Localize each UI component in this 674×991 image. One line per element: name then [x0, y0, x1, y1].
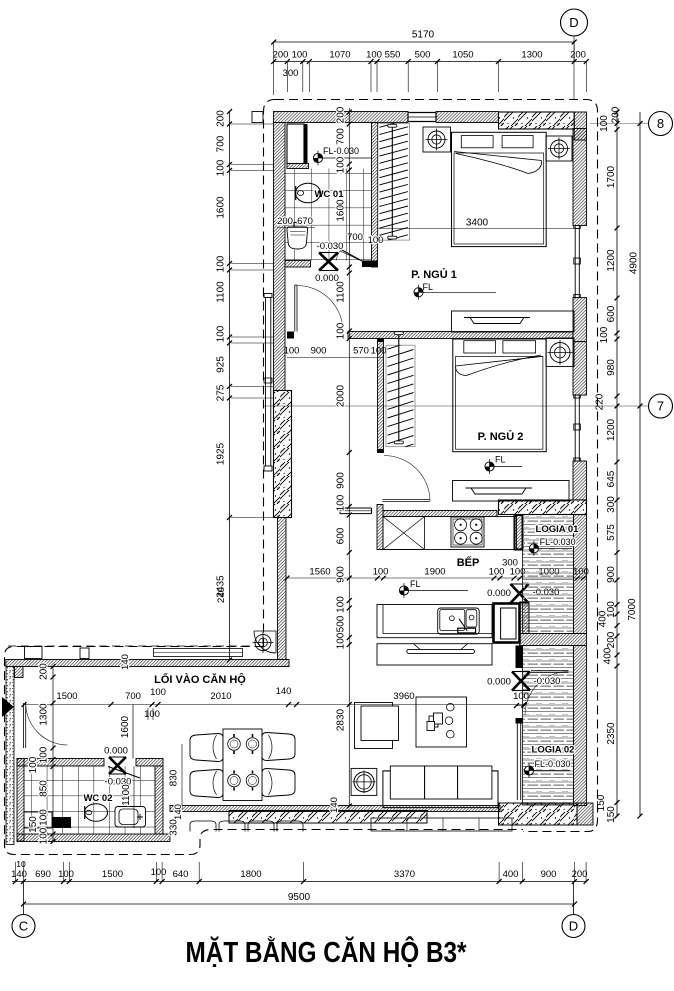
- side table with fan: [351, 768, 377, 795]
- logia01 pier: [515, 515, 523, 550]
- svg-text:1100: 1100: [336, 281, 347, 303]
- svg-text:100: 100: [216, 255, 227, 272]
- svg-text:220: 220: [595, 393, 606, 410]
- svg-text:0.000: 0.000: [487, 677, 511, 688]
- property boundary dashed (upper wing): [275, 100, 598, 832]
- dining chair 4: [262, 769, 295, 797]
- svg-text:LOGIA 02: LOGIA 02: [532, 745, 575, 756]
- grid bubble 7: [649, 394, 673, 418]
- door bedroom2 arc: [384, 456, 430, 502]
- bedroom2 left wall caps: [378, 339, 384, 453]
- svg-text:200: 200: [39, 663, 50, 680]
- svg-text:900: 900: [336, 472, 347, 489]
- threshold X vestibule: [319, 253, 338, 271]
- dining chair 1: [190, 734, 223, 762]
- svg-text:1700: 1700: [606, 165, 617, 188]
- threshold X logia02: [512, 672, 530, 691]
- svg-text:330: 330: [169, 819, 180, 836]
- svg-text:700: 700: [336, 128, 347, 145]
- svg-text:140: 140: [120, 654, 131, 670]
- svg-text:900: 900: [606, 566, 617, 583]
- svg-text:100: 100: [39, 809, 50, 826]
- svg-text:400: 400: [598, 610, 609, 627]
- window in top wall: [408, 113, 436, 122]
- dim top segments line: [271, 59, 589, 92]
- svg-text:-0.030: -0.030: [317, 241, 344, 252]
- WC02 top wall right: [136, 759, 163, 767]
- bed 2: [453, 339, 546, 452]
- lower left vdim: [51, 664, 56, 844]
- WC01 bottom wall right stub: [362, 261, 378, 268]
- left dim line: [227, 109, 232, 662]
- wardrobe 1 rod: [388, 124, 397, 239]
- wall right below window2: [573, 461, 587, 500]
- svg-text:140: 140: [11, 869, 27, 880]
- svg-text:1900: 1900: [424, 567, 445, 578]
- svg-text:100: 100: [292, 50, 308, 61]
- svg-text:1800: 1800: [240, 869, 261, 880]
- svg-text:MẶT BẰNG CĂN HỘ B3*: MẶT BẰNG CĂN HỘ B3*: [186, 935, 468, 969]
- grid bubble D top: [561, 9, 588, 36]
- entry top wall: [6, 660, 289, 667]
- corridor dashed line: [8, 645, 251, 647]
- svg-text:FL-0.030: FL-0.030: [535, 759, 571, 769]
- svg-text:670: 670: [297, 216, 313, 227]
- svg-text:D: D: [569, 919, 578, 934]
- svg-text:100: 100: [336, 596, 347, 613]
- svg-text:690: 690: [35, 869, 51, 880]
- dining chair 3: [262, 733, 295, 761]
- kitchen wall left stub: [377, 505, 383, 550]
- corridor object b: [80, 648, 89, 659]
- svg-text:100: 100: [513, 691, 529, 702]
- grid bubble D bottom: [562, 915, 585, 938]
- sink WC01: [287, 221, 308, 249]
- window right wall bedroom2: [574, 395, 581, 461]
- FL marker logia02: [524, 759, 570, 778]
- FL marker bedroom1: [414, 282, 496, 300]
- svg-text:900: 900: [541, 869, 557, 880]
- WC02 black stub: [52, 817, 71, 828]
- grid line C bottom: [23, 882, 25, 915]
- svg-text:550: 550: [385, 50, 401, 61]
- wardrobe 2 rod: [394, 332, 403, 444]
- svg-text:100: 100: [144, 709, 160, 720]
- svg-text:100: 100: [150, 687, 166, 698]
- logia01 floor hatch: [523, 515, 574, 634]
- svg-text:100: 100: [371, 346, 387, 357]
- svg-text:100: 100: [151, 867, 167, 878]
- logia02 bottom concrete band: [499, 803, 578, 825]
- window right wall bedroom1: [574, 226, 581, 298]
- divider wall logia01/02: [520, 634, 587, 646]
- dim 1600 entry: [120, 705, 133, 759]
- wall top-right corner pier: [574, 112, 586, 140]
- dim line living 3960 row: [22, 702, 527, 707]
- svg-text:100: 100: [599, 326, 610, 343]
- dining chair 2: [190, 770, 223, 798]
- left dim extension lines: [231, 124, 273, 518]
- dim line kitchen 1560 row: [285, 576, 587, 581]
- svg-text:300: 300: [283, 68, 299, 79]
- dim 3400 bedroom1: [378, 218, 574, 229]
- svg-text:1300: 1300: [39, 703, 50, 726]
- svg-text:570: 570: [353, 346, 369, 357]
- svg-text:-0.030: -0.030: [534, 676, 561, 687]
- svg-text:100: 100: [599, 115, 610, 132]
- wall top (brick, right of window): [436, 112, 499, 123]
- corner floor drain: [253, 631, 277, 653]
- wardrobe 2 hatch: [386, 341, 415, 453]
- nightstand bed2: [546, 338, 574, 367]
- svg-text:1925: 1925: [216, 442, 227, 465]
- threshold X WC02: [109, 757, 126, 774]
- svg-text:200: 200: [606, 631, 617, 648]
- svg-text:600: 600: [606, 305, 617, 322]
- svg-text:200: 200: [336, 106, 347, 123]
- place setting 4: [246, 774, 259, 787]
- svg-text:1070: 1070: [329, 50, 350, 61]
- planter right below wall: [371, 818, 512, 831]
- grid line D top: [573, 36, 575, 99]
- sink WC02: [115, 807, 146, 828]
- WC02 tile floor: [24, 766, 155, 834]
- svg-text:200: 200: [216, 110, 227, 127]
- stub below entry wall: [15, 667, 24, 678]
- concrete band above logia 01: [499, 500, 587, 515]
- wall WC01 right: [372, 123, 378, 268]
- nightstand 1 left: [423, 127, 451, 152]
- svg-text:100: 100: [28, 756, 39, 773]
- svg-text:7: 7: [657, 399, 664, 414]
- svg-text:1200: 1200: [606, 418, 617, 441]
- door hall arc: [297, 286, 343, 332]
- WC02 niche: [24, 812, 52, 828]
- entry door leaf: [24, 703, 26, 748]
- svg-text:100: 100: [284, 346, 300, 357]
- svg-text:100: 100: [366, 50, 382, 61]
- wall top concrete band: [499, 112, 575, 129]
- svg-text:P. NGỦ 1: P. NGỦ 1: [411, 268, 457, 281]
- door logia02 arc: [525, 672, 569, 716]
- bottom dim row1: [12, 862, 589, 884]
- place setting 3: [228, 774, 241, 787]
- svg-text:2000: 2000: [336, 384, 347, 407]
- WC02 bottom wall: [17, 834, 170, 842]
- dim 200 670 in WC01: [277, 216, 315, 228]
- svg-text:200: 200: [611, 106, 622, 123]
- pier below divider: [516, 646, 523, 669]
- entry arrow: [2, 697, 14, 717]
- left dotted strip: [6, 667, 14, 845]
- svg-text:4900: 4900: [629, 251, 640, 274]
- svg-text:1600: 1600: [336, 199, 347, 222]
- corridor track: [154, 649, 243, 657]
- svg-text:925: 925: [216, 356, 227, 373]
- svg-text:200: 200: [277, 216, 293, 227]
- wall right of bedroom 2: [573, 342, 587, 396]
- WC02 top wall left: [17, 759, 104, 767]
- window living-logia02: [517, 724, 520, 801]
- bottom row1 texts: [11, 859, 587, 880]
- kitchen sink double: [438, 608, 480, 634]
- bench foot of bed2: [453, 481, 570, 502]
- bottom right wall stub: [577, 803, 593, 825]
- wall left lower: [278, 518, 287, 660]
- tv console living: [377, 644, 492, 665]
- svg-text:5170: 5170: [412, 30, 435, 41]
- wall bedroom2 left: [378, 339, 384, 453]
- svg-text:900: 900: [311, 346, 327, 357]
- kitchen counter outline: [383, 517, 517, 550]
- svg-text:700: 700: [216, 135, 227, 152]
- armchair living: [355, 703, 399, 749]
- svg-text:3370: 3370: [394, 869, 415, 880]
- bottom dim row2 9500: [21, 892, 577, 906]
- svg-text:275: 275: [216, 384, 227, 401]
- svg-text:100: 100: [368, 235, 384, 246]
- svg-text:575: 575: [606, 524, 617, 541]
- svg-text:140: 140: [329, 797, 340, 813]
- dim line 100 900 570 100: [284, 346, 387, 358]
- level -0.030 vestibule: [317, 241, 362, 261]
- WC01 door leaf: [341, 250, 363, 262]
- svg-text:FL: FL: [410, 579, 421, 589]
- bottom window sill band: [170, 806, 500, 812]
- svg-text:100: 100: [336, 494, 347, 511]
- tv on desk bedroom1: [464, 318, 530, 324]
- svg-text:400: 400: [603, 647, 614, 664]
- threshold X logia01: [511, 584, 529, 603]
- svg-text:LOGIA 01: LOGIA 01: [536, 524, 580, 535]
- grid line 7 horizontal: [263, 405, 648, 407]
- wall top (brick, left part): [274, 112, 409, 123]
- svg-text:140: 140: [173, 804, 184, 820]
- svg-text:D: D: [569, 15, 578, 30]
- stub outside top-left corner: [252, 112, 263, 123]
- svg-text:2830: 2830: [336, 708, 347, 731]
- interior vdim line: [347, 108, 352, 808]
- svg-text:8: 8: [657, 116, 664, 131]
- svg-text:240: 240: [216, 587, 227, 603]
- svg-text:140: 140: [276, 686, 292, 697]
- svg-text:500: 500: [415, 50, 431, 61]
- place setting 1: [228, 738, 241, 751]
- logia01 right wall: [574, 515, 587, 634]
- logia02 floor hatch: [523, 646, 574, 806]
- svg-text:150: 150: [28, 816, 39, 833]
- svg-text:100: 100: [39, 746, 50, 763]
- svg-text:1050: 1050: [452, 50, 473, 61]
- svg-text:200: 200: [570, 50, 586, 61]
- kitchen top wall: [383, 511, 497, 517]
- texts top segments: [273, 50, 586, 61]
- corridor object a: [25, 647, 43, 659]
- door hall leaf: [295, 285, 297, 332]
- kitchen pass-through window: [340, 508, 372, 514]
- property boundary dashed (lower wing): [5, 647, 524, 855]
- svg-text:1300: 1300: [521, 50, 542, 61]
- svg-text:700: 700: [125, 691, 141, 702]
- svg-text:FL: FL: [423, 282, 434, 292]
- svg-text:1500: 1500: [102, 869, 123, 880]
- dim 830 dining: [169, 744, 185, 836]
- grid line 8 stub: [590, 123, 648, 125]
- svg-text:100: 100: [336, 632, 347, 649]
- door bedroom2 leaf: [383, 500, 430, 502]
- sofa: [383, 766, 498, 808]
- svg-text:100: 100: [489, 567, 505, 578]
- WC01 door arc: [336, 250, 341, 261]
- WC02 left wall: [17, 759, 24, 842]
- svg-text:200: 200: [572, 869, 588, 880]
- svg-text:3400: 3400: [466, 218, 489, 229]
- dim 700 100 hall: [347, 232, 383, 246]
- WC01 niche closet: [287, 124, 308, 164]
- svg-text:500: 500: [336, 615, 347, 632]
- svg-text:1200: 1200: [606, 249, 617, 272]
- svg-text:2350: 2350: [606, 722, 617, 745]
- svg-text:100: 100: [216, 159, 227, 176]
- dining table: [223, 729, 262, 801]
- svg-text:100: 100: [336, 156, 347, 173]
- place setting 2: [246, 738, 259, 751]
- stacked dim 100 entry: [144, 708, 160, 720]
- tv on console: [407, 644, 475, 654]
- wall left concrete (shear): [274, 391, 292, 518]
- right outer dim line: [627, 112, 642, 818]
- svg-text:640: 640: [173, 869, 189, 880]
- divider wall left cap: [287, 332, 294, 339]
- texts living dim row: [56, 686, 529, 702]
- svg-text:645: 645: [606, 470, 617, 487]
- nightstand 1 right: [546, 136, 572, 161]
- wall bedroom1/2 divider: [348, 332, 573, 339]
- toilet WC01: [296, 183, 321, 203]
- wall left upper (brick): [274, 123, 286, 391]
- svg-text:BẾP: BẾP: [457, 556, 480, 569]
- svg-text:1560: 1560: [309, 567, 330, 578]
- kitchen island: [377, 605, 492, 638]
- WC01 niche bottom thin wall: [287, 164, 309, 169]
- grid bubble 8: [649, 112, 673, 136]
- WC01 bottom wall left part: [285, 261, 311, 268]
- desk bedroom1: [452, 311, 575, 332]
- grid line D bottom: [573, 882, 575, 915]
- bed 1: [452, 132, 547, 246]
- wardrobe 1 hatch: [378, 120, 410, 250]
- svg-text:FL: FL: [495, 455, 506, 465]
- entry door arc: [26, 703, 68, 745]
- FL marker kitchen: [399, 579, 468, 598]
- svg-text:1100: 1100: [121, 784, 132, 806]
- svg-text:7000: 7000: [627, 598, 638, 621]
- svg-text:300: 300: [606, 496, 617, 513]
- WC02 door leaf: [108, 767, 140, 779]
- svg-text:FL-0.030: FL-0.030: [323, 146, 359, 156]
- svg-text:1100: 1100: [216, 281, 227, 303]
- property boundary dashed (left of upper wing): [264, 100, 276, 647]
- svg-text:P. NGỦ 2: P. NGỦ 2: [478, 430, 524, 443]
- svg-text:3960: 3960: [393, 691, 414, 702]
- grid bubble C: [12, 915, 35, 938]
- svg-text:1500: 1500: [56, 691, 77, 702]
- svg-text:LỐI VÀO CĂN HỘ: LỐI VÀO CĂN HỘ: [154, 672, 246, 686]
- svg-text:100: 100: [373, 567, 389, 578]
- svg-text:400: 400: [503, 869, 519, 880]
- svg-text:150: 150: [606, 806, 617, 823]
- planter left below wall: [190, 821, 303, 832]
- wall right between windows: [573, 298, 587, 342]
- kitchen corner cabinet X: [383, 517, 425, 550]
- logia02 right wall: [574, 646, 587, 806]
- FL marker bedroom2: [485, 455, 522, 475]
- svg-text:1600: 1600: [120, 715, 131, 738]
- svg-text:100: 100: [336, 322, 347, 339]
- svg-text:980: 980: [606, 359, 617, 376]
- dim 1100 wc02: [121, 767, 134, 829]
- coffee table: [416, 697, 467, 747]
- svg-text:0.000: 0.000: [487, 588, 511, 599]
- corridor window strip left: [264, 294, 272, 472]
- svg-text:9500: 9500: [288, 892, 311, 903]
- dim 300 sub: [283, 68, 299, 79]
- WC01 tile floor: [285, 169, 372, 261]
- wall right of bedroom 1: [573, 129, 587, 226]
- fridge: [494, 604, 520, 643]
- door logia02 leaf: [531, 671, 569, 673]
- cap below logia02 door: [516, 718, 523, 724]
- svg-text:FL-0.030: FL-0.030: [540, 537, 576, 547]
- svg-text:C: C: [19, 919, 28, 934]
- bottom concrete band: [229, 811, 427, 824]
- svg-text:600: 600: [336, 527, 347, 544]
- svg-text:1600: 1600: [216, 196, 227, 219]
- pier right of fridge: [520, 602, 530, 634]
- texts kitchen dim row: [309, 567, 589, 578]
- svg-text:900: 900: [336, 566, 347, 583]
- svg-text:100: 100: [58, 869, 74, 880]
- svg-text:830: 830: [169, 769, 180, 786]
- WC02 right wall: [155, 766, 163, 834]
- toilet WC02: [85, 804, 108, 822]
- svg-text:100: 100: [39, 827, 50, 844]
- dim 5170 line: [271, 30, 576, 96]
- dim 100 logia02 door: [514, 703, 526, 708]
- svg-text:850: 850: [39, 780, 50, 797]
- svg-text:WC 02: WC 02: [83, 793, 112, 804]
- svg-text:200: 200: [273, 50, 289, 61]
- svg-text:0.000: 0.000: [104, 746, 128, 757]
- FL marker logia01: [529, 537, 575, 556]
- svg-text:10: 10: [16, 859, 26, 869]
- svg-text:2010: 2010: [210, 691, 231, 702]
- FL marker WC01: [313, 146, 371, 166]
- svg-text:100: 100: [216, 325, 227, 342]
- right dim line: [615, 110, 620, 819]
- stove 4 burners: [451, 517, 484, 547]
